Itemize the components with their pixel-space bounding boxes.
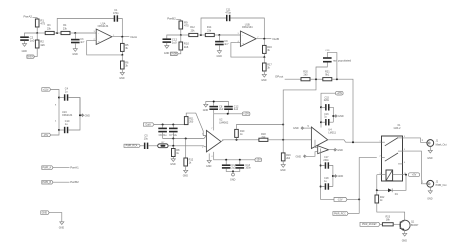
- wire: [53, 181, 70, 183]
- node B junction: [56, 32, 58, 34]
- op-amp U1C power pins: [55, 104, 73, 122]
- node junction: [336, 78, 338, 80]
- svg-text:220n: 220n: [324, 99, 330, 102]
- wire: [25, 33, 38, 36]
- relay K1 body: [380, 124, 407, 181]
- wire: [230, 18, 264, 39]
- svg-text:6: 6: [404, 162, 405, 164]
- svg-text:2u2: 2u2: [231, 167, 236, 170]
- ground: [22, 44, 28, 54]
- node junction: [227, 113, 229, 115]
- svg-text:GND: GND: [427, 157, 433, 160]
- wire relay to J2: [403, 151, 427, 184]
- wire: [75, 32, 96, 34]
- node GNDB flag: [170, 52, 178, 56]
- wire: [285, 78, 301, 80]
- ground: [183, 170, 189, 177]
- node junction: [58, 129, 60, 131]
- wire: [172, 139, 174, 146]
- node PWR_RCA flag: [124, 144, 140, 147]
- wire: [321, 121, 333, 123]
- wire: [393, 223, 400, 225]
- wire: [121, 51, 123, 55]
- svg-text:LM4562: LM4562: [219, 121, 229, 124]
- wire coil left to D1: [376, 175, 378, 191]
- wire: [168, 146, 206, 147]
- node PwrA2: [24, 14, 33, 18]
- wire: [380, 223, 383, 225]
- node junction: [172, 145, 174, 147]
- node junction: [282, 124, 284, 126]
- op-amp U4b: [318, 146, 329, 154]
- svg-text:475: 475: [40, 22, 45, 26]
- wire: [198, 34, 201, 36]
- svg-text:-15V: -15V: [256, 160, 261, 162]
- wire: [140, 145, 144, 147]
- svg-text:not populated: not populated: [333, 58, 352, 62]
- wire: [51, 130, 59, 135]
- node OutA flag: [143, 123, 154, 127]
- node +15V flag: [336, 91, 344, 95]
- wire: [429, 146, 431, 150]
- capacitor C13: [236, 160, 252, 170]
- diode D1: [377, 188, 399, 195]
- svg-text:GND: GND: [427, 198, 433, 201]
- wire caps to gnd: [226, 169, 240, 172]
- svg-text:GND: GND: [85, 114, 91, 117]
- wire: [218, 45, 220, 51]
- capacitor C14: [222, 160, 237, 170]
- wire: [392, 175, 406, 191]
- resistor R12: [189, 26, 198, 37]
- svg-text:1u0: 1u0: [172, 41, 177, 45]
- wire: [180, 29, 182, 35]
- svg-text:PwrB2: PwrB2: [70, 180, 79, 184]
- node GNDA flag: [27, 55, 35, 59]
- ground: [203, 104, 209, 112]
- svg-text:GND: GND: [183, 175, 189, 178]
- svg-text:PwrA1: PwrA1: [70, 166, 79, 170]
- pin 1: [422, 140, 424, 142]
- svg-text:GND: GND: [119, 77, 125, 80]
- resistor R22: [375, 195, 385, 203]
- capacitor C16: [324, 113, 329, 126]
- resistor R21: [323, 70, 332, 80]
- resistor R1: [35, 18, 45, 27]
- wire: [74, 43, 76, 49]
- resistor R10: [179, 42, 189, 50]
- ground: [280, 165, 286, 172]
- node junction: [320, 121, 322, 123]
- node junction: [172, 124, 174, 126]
- wire output: [112, 36, 129, 38]
- ground: [427, 191, 433, 201]
- ground flag: [333, 175, 343, 178]
- svg-text:OPA2134: OPA2134: [98, 25, 109, 28]
- node -15V flag: [334, 198, 347, 202]
- capacitor C17: [323, 156, 329, 169]
- wire: [68, 98, 80, 131]
- svg-text:PWR_A: PWR_A: [43, 166, 52, 169]
- node divider junction: [121, 54, 123, 56]
- svg-text:OPout: OPout: [275, 75, 283, 79]
- svg-text:PWR_RCDET: PWR_RCDET: [362, 224, 377, 226]
- svg-text:2u2: 2u2: [219, 108, 224, 111]
- node junction: [162, 124, 164, 126]
- svg-text:+15V: +15V: [243, 113, 249, 116]
- svg-text:2: 2: [380, 156, 381, 158]
- wire: [33, 18, 38, 19]
- svg-text:GND: GND: [164, 52, 170, 55]
- wire: [180, 35, 182, 42]
- svg-text:PWR_Out: PWR_Out: [436, 184, 447, 187]
- capacitor C10: [64, 120, 70, 133]
- resistor R17: [263, 63, 273, 71]
- svg-text:7: 7: [211, 128, 212, 130]
- svg-text:PwrB2: PwrB2: [167, 16, 176, 20]
- ground: [170, 159, 176, 166]
- wire: [321, 166, 333, 187]
- svg-text:OPA2134: OPA2134: [62, 114, 73, 117]
- svg-text:PwrA2: PwrA2: [24, 14, 33, 18]
- resistor R10b feedback: [235, 129, 245, 137]
- node output junction: [121, 36, 123, 38]
- wire: [321, 107, 333, 122]
- resistor R4: [61, 24, 70, 35]
- resistor R20: [301, 70, 310, 80]
- node junction: [315, 78, 317, 80]
- wire: [59, 129, 64, 131]
- ground: [164, 46, 170, 56]
- wire: [49, 213, 62, 222]
- node junction: [352, 141, 354, 143]
- svg-text:260: 260: [189, 121, 194, 124]
- resistor R23: [382, 216, 393, 226]
- svg-text:OutA: OutA: [145, 123, 151, 126]
- wire: [376, 190, 378, 195]
- svg-text:GNDB: GNDB: [170, 54, 177, 56]
- svg-text:GNDA: GNDA: [27, 55, 34, 58]
- svg-text:GND: GND: [42, 211, 48, 214]
- resistor R18: [259, 133, 268, 141]
- resistor R6: [121, 61, 130, 69]
- wire: [172, 157, 174, 159]
- wire: [377, 203, 405, 220]
- wire: [154, 124, 186, 126]
- pin 1: [422, 182, 424, 184]
- ground flag pin5: [293, 126, 311, 130]
- wire relay to J1: [403, 138, 427, 142]
- svg-text:1u0: 1u0: [30, 39, 35, 43]
- svg-text:GND: GND: [170, 163, 176, 166]
- wire: [172, 146, 174, 149]
- wire: [167, 35, 181, 38]
- node +15V flag: [242, 112, 250, 116]
- wire: [310, 78, 323, 80]
- svg-text:2u2: 2u2: [234, 108, 239, 111]
- node junction: [332, 115, 334, 117]
- ground: [72, 49, 78, 56]
- wire divider to +in: [87, 41, 123, 55]
- wire divider to +in: [231, 43, 264, 58]
- wire: [148, 145, 157, 147]
- capacitor C18: [324, 177, 329, 190]
- wire riser: [359, 158, 377, 214]
- svg-text:230n: 230n: [323, 159, 329, 162]
- capacitor C12b: [224, 105, 239, 111]
- pin stub: [237, 42, 241, 44]
- node junction: [282, 139, 284, 141]
- capacitor C4: [64, 88, 69, 101]
- resistor R3: [45, 24, 54, 35]
- wire: [54, 32, 57, 34]
- ground: [119, 72, 125, 79]
- wire: [181, 34, 189, 36]
- op-amp U1B: [238, 23, 259, 46]
- ground stub: [206, 154, 212, 169]
- node junction: [376, 189, 378, 191]
- svg-text:10u: 10u: [144, 138, 149, 141]
- wire: [178, 50, 181, 54]
- wire: [282, 161, 284, 165]
- wire U2 V+: [213, 114, 215, 131]
- wire: [321, 93, 336, 127]
- node junction: [172, 138, 174, 140]
- pin 2 stub: [93, 40, 97, 42]
- node OPout label: [275, 75, 283, 79]
- ground flag: [333, 115, 343, 118]
- wire OPout riser: [283, 79, 316, 140]
- capacitor C3: [71, 38, 85, 44]
- wire: [37, 32, 45, 34]
- relay contact B: [382, 153, 403, 164]
- wire: [176, 20, 181, 21]
- wire: [404, 231, 406, 234]
- node junction: [232, 170, 234, 172]
- svg-text:GND: GND: [280, 169, 286, 172]
- capacitor C7: [169, 125, 178, 138]
- node +5V flag: [409, 173, 420, 177]
- wire: [219, 34, 240, 36]
- wire stub: [315, 140, 318, 148]
- svg-text:GND: GND: [59, 227, 65, 230]
- svg-text:100n: 100n: [245, 167, 251, 170]
- wire: [118, 19, 122, 37]
- relay coil: [377, 170, 406, 181]
- svg-text:GND: GND: [206, 165, 212, 168]
- svg-text:GND: GND: [296, 155, 302, 158]
- node PWR_A flag: [42, 166, 53, 170]
- wire U2 output: [221, 140, 259, 142]
- node junction: [332, 175, 334, 177]
- svg-text:1k6: 1k6: [40, 43, 45, 47]
- node OutA label: [130, 35, 137, 39]
- node C2 junction: [218, 34, 220, 36]
- node PWR_B flag: [42, 180, 53, 184]
- ground: [427, 150, 433, 160]
- node PWR_RCDET flag: [360, 222, 380, 226]
- ground flag: [81, 114, 90, 117]
- svg-text:BC847: BC847: [411, 224, 419, 227]
- svg-text:Mask_Out: Mask_Out: [436, 143, 447, 146]
- svg-text:OutB: OutB: [272, 37, 279, 41]
- resistor R2: [35, 40, 45, 48]
- node output junction: [263, 38, 265, 40]
- svg-text:9k1: 9k1: [325, 73, 330, 76]
- svg-text:3: 3: [94, 31, 95, 33]
- wire cap bottoms rail: [163, 132, 207, 138]
- node junction: [320, 165, 322, 167]
- resistor R11: [184, 117, 194, 125]
- ground: [402, 233, 408, 242]
- svg-text:475: 475: [184, 24, 189, 28]
- wire: [218, 35, 220, 41]
- svg-text:4n7: 4n7: [224, 43, 229, 46]
- wire R11 top to -in: [186, 113, 206, 135]
- svg-text:G6K-2: G6K-2: [394, 127, 402, 130]
- svg-text:2k0: 2k0: [303, 73, 308, 76]
- svg-text:GND: GND: [293, 127, 299, 130]
- svg-text:PWR_RCC: PWR_RCC: [334, 213, 346, 215]
- svg-text:1k6: 1k6: [184, 45, 189, 49]
- node C junction: [74, 32, 76, 34]
- wire U4 V- and caps below: [321, 149, 334, 200]
- wire: [53, 167, 70, 169]
- resistor R16: [263, 45, 273, 53]
- wire: [263, 71, 265, 74]
- svg-text:GND: GND: [22, 50, 28, 53]
- svg-text:-15V: -15V: [43, 134, 48, 137]
- wire: [347, 198, 359, 200]
- svg-text:GND: GND: [203, 109, 209, 112]
- svg-text:+15V: +15V: [336, 92, 342, 95]
- wire: [429, 187, 431, 191]
- wire: [332, 79, 353, 142]
- svg-text:OPA2134: OPA2134: [242, 26, 253, 29]
- wire: [263, 57, 265, 63]
- wire: [263, 39, 265, 46]
- svg-text:GND: GND: [230, 179, 236, 182]
- node GND flag: [41, 211, 49, 215]
- wire: [348, 213, 359, 215]
- svg-text:LM311: LM311: [328, 132, 336, 135]
- op-amp U4: [311, 127, 336, 149]
- connector J1: [427, 140, 447, 147]
- wire: [201, 34, 205, 36]
- capacitor C5: [144, 135, 149, 149]
- resistor R8: [172, 149, 181, 157]
- node junction: [236, 139, 238, 141]
- svg-text:GND: GND: [338, 175, 344, 178]
- wire: [321, 186, 333, 188]
- capacitor C19 not populated: [316, 50, 351, 79]
- node junction: [79, 114, 81, 116]
- op-amp U2: [202, 119, 229, 158]
- svg-text:2k0: 2k0: [286, 157, 291, 160]
- wire: [51, 90, 59, 131]
- svg-text:OutA: OutA: [130, 35, 137, 39]
- svg-text:-15V: -15V: [337, 198, 342, 201]
- node junction: [213, 101, 215, 103]
- node -15V flag: [42, 133, 51, 137]
- wire: [185, 166, 187, 170]
- wire: [185, 139, 187, 159]
- relay contact A: [382, 138, 403, 152]
- capacitor C9: [215, 40, 229, 46]
- connector J2: [427, 180, 447, 187]
- node B2 junction: [200, 34, 202, 36]
- svg-text:470p: 470p: [225, 11, 231, 14]
- wire: [214, 34, 219, 36]
- capacitor C15: [324, 96, 330, 110]
- wire: [70, 32, 75, 34]
- resistor R14: [205, 26, 214, 37]
- svg-text:GND: GND: [337, 149, 343, 152]
- svg-text:GND: GND: [72, 53, 78, 56]
- svg-text:GND: GND: [261, 79, 267, 82]
- node A junction: [36, 32, 38, 34]
- svg-text:470p: 470p: [113, 12, 119, 15]
- ground: [217, 51, 223, 58]
- capacitor C2: [20, 36, 35, 43]
- node junction: [239, 159, 241, 161]
- transistor Q1: [400, 220, 419, 231]
- wire V+ rail: [214, 113, 243, 115]
- node A2 junction: [180, 34, 182, 36]
- node divider junction: [263, 56, 265, 58]
- wire: [74, 33, 76, 39]
- wire: [57, 32, 61, 34]
- node PWR_RCC flag: [333, 212, 348, 216]
- wire output: [256, 38, 271, 40]
- wire feedback top: [201, 18, 226, 35]
- node OutB label: [272, 37, 279, 41]
- svg-text:GND: GND: [338, 115, 344, 118]
- node -15V flag: [255, 158, 262, 162]
- wire: [263, 53, 265, 57]
- op-amp U1A: [94, 22, 115, 44]
- resistor R9: [179, 20, 189, 29]
- resistor R7 ferrite: [158, 142, 168, 148]
- node junction: [225, 159, 227, 161]
- ground flag U4b out: [329, 148, 343, 151]
- svg-text:+5V: +5V: [412, 174, 417, 177]
- wire: [121, 55, 123, 61]
- wire: [35, 48, 38, 57]
- wire: [121, 37, 123, 44]
- ground earth: [230, 171, 236, 181]
- svg-text:4: 4: [211, 156, 212, 158]
- capacitor C12: [163, 38, 178, 45]
- wire: [36, 33, 38, 40]
- node PwrB2 label: [70, 180, 79, 184]
- capacitor C6: [158, 125, 167, 138]
- node PwrB2: [167, 16, 176, 20]
- wire: [121, 69, 123, 72]
- svg-text:2k4: 2k4: [261, 136, 266, 139]
- node PwrA1 label: [70, 166, 79, 170]
- ground flag pin3: [296, 152, 318, 159]
- wire: [36, 27, 38, 33]
- svg-text:4n7: 4n7: [80, 41, 85, 44]
- ground: [261, 74, 267, 81]
- wire feedback top: [57, 19, 113, 34]
- node junction: [185, 138, 187, 140]
- node junction: [320, 186, 322, 188]
- capacitor C8: [209, 105, 223, 111]
- svg-text:GND: GND: [217, 55, 223, 58]
- wire: [59, 97, 64, 99]
